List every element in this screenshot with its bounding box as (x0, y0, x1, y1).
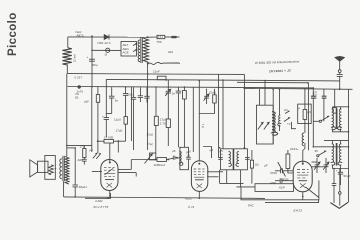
wire mains lower line (92, 49, 121, 51)
wire diagonal (278, 162, 286, 177)
fuse Si (106, 48, 110, 52)
wire IF bottom link (236, 186, 255, 188)
wire x308 corner (307, 83, 309, 151)
resistor R11 (250, 160, 253, 168)
resistor R6 (183, 87, 185, 91)
shield box (298, 104, 312, 123)
svg-text:A151+: A151+ (290, 147, 299, 151)
svg-text:ZHY3081 + JZ: ZHY3081 + JZ (268, 68, 291, 73)
band coil L1a (332, 109, 336, 130)
wire coil2 bottoms (333, 165, 349, 168)
svg-text:+: + (102, 114, 104, 118)
svg-text:µW: µW (84, 100, 89, 104)
svg-text:Ü.f3: Ü.f3 (188, 205, 194, 209)
wire dropper to bus (66, 64, 68, 73)
resistor R17 (334, 89, 336, 108)
IF transformer IF1 right loop (234, 149, 248, 170)
wire x223 (222, 80, 224, 149)
tube V2 heater (197, 184, 203, 189)
wire bottom loop big (241, 180, 319, 199)
svg-text:+: + (336, 169, 338, 173)
capacitor C22 (323, 89, 325, 96)
bus bottom (64, 197, 265, 199)
svg-text:17µ: 17µ (80, 145, 85, 149)
wire long x218 (218, 74, 220, 157)
capacitor C21 electrolytic (340, 169, 342, 173)
svg-text:µµ: µµ (284, 108, 288, 112)
tube V2 grids (194, 169, 205, 177)
tube V1 bottom lead (109, 191, 111, 199)
osc coil L4a (272, 89, 274, 112)
IF1 coil a (229, 152, 232, 167)
tube V3 bottom lead (302, 192, 304, 200)
wire AGC branch (105, 79, 107, 113)
bus L3 (68, 87, 314, 88)
svg-text:50µF: 50µF (344, 174, 351, 178)
capacitor C8 electrolytic (73, 184, 78, 186)
antenna (335, 57, 344, 62)
coil humbucking (49, 165, 54, 175)
transformer T2 primary (60, 159, 62, 179)
wire secondary bottom to bus (147, 63, 149, 150)
capacitor C5 (146, 88, 148, 97)
svg-text:5n: 5n (115, 99, 119, 103)
band core 2 (335, 143, 337, 166)
svg-text:12MΩ+2: 12MΩ+2 (154, 163, 166, 167)
resistor R12nF (157, 76, 166, 80)
transformer T2 core (62, 156, 64, 181)
svg-text:2Ω1Ω: 2Ω1Ω (314, 90, 318, 99)
wire stub x136 (135, 173, 137, 177)
tube V3 side leads (312, 161, 318, 163)
trimmer C14 (316, 158, 318, 165)
capacitor C9 (186, 157, 191, 159)
wire mid link (313, 146, 348, 148)
svg-text:0 237: 0 237 (75, 76, 83, 80)
tube V3 envelope (293, 161, 312, 192)
svg-text:2Ω: 2Ω (255, 163, 260, 167)
tube V3 grids (297, 170, 309, 178)
wire mains top line (68, 36, 148, 38)
choke RFC (302, 133, 304, 146)
capacitor C13 (275, 180, 280, 182)
IF transformer IF1 left loop (221, 149, 234, 170)
band core 1 (335, 109, 337, 130)
bus L2 (106, 79, 339, 81)
wire shield stub (292, 122, 297, 129)
capacitor C11 (245, 157, 250, 159)
resistor R5 (166, 119, 170, 128)
capacitor C17 electrolytic (105, 114, 107, 118)
wire L1 corner down (243, 74, 245, 148)
capacitor C1 electrolytic (89, 58, 95, 60)
wire anode corner x211 (203, 147, 212, 159)
wire secondary top (146, 36, 157, 38)
resistor R-dropper coil (62, 48, 71, 65)
capacitor C23 (311, 95, 316, 97)
trimmer C15 (325, 158, 327, 165)
svg-text:4 A61: 4 A61 (95, 199, 103, 203)
resistor R15 (304, 88, 306, 109)
bus L2b (237, 81, 308, 84)
svg-text:2n: 2n (172, 91, 176, 95)
svg-text:A872: A872 (77, 33, 84, 37)
wire diagonal to ground (306, 187, 319, 198)
wire coil top link (333, 106, 349, 108)
tube V1 envelope (101, 160, 118, 191)
tube V2 side leads (207, 171, 223, 173)
resistor R2 (157, 35, 165, 38)
svg-text:+µ: +µ (287, 122, 291, 126)
svg-text:12 bel: 12 bel (73, 54, 77, 63)
svg-text:µ7: µ7 (188, 150, 192, 154)
svg-text:7 µ: 7 µ (201, 123, 206, 128)
potentiometer P1 (150, 153, 156, 160)
wire IF1 bottom drops (226, 170, 228, 184)
svg-text:14: 14 (219, 153, 223, 157)
svg-text:17µ0: 17µ0 (146, 132, 153, 136)
tuned circuit loop (180, 147, 189, 169)
wire bottom stub (265, 200, 319, 203)
trimmer arrow C7 (204, 94, 209, 101)
wire selector taps (133, 43, 137, 51)
svg-text:µ0: µ0 (308, 110, 312, 114)
ground (330, 202, 348, 208)
svg-text:202: 202 (168, 50, 173, 54)
svg-text:12nF: 12nF (153, 70, 160, 74)
tube V1 grids (104, 167, 115, 176)
resistor R9 grid (98, 140, 104, 142)
svg-text:50µ: 50µ (93, 63, 98, 67)
wire grid feed x125 (125, 87, 127, 93)
svg-text:ACE: ACE (123, 51, 129, 55)
tube V1 heater (107, 183, 113, 188)
loudspeaker LS (30, 160, 38, 177)
resistor R10 (83, 145, 85, 148)
tube V3 heater (300, 183, 306, 188)
speaker frame (45, 156, 56, 180)
transformer T1 secondary (143, 38, 148, 62)
voltage selector S1 (121, 42, 137, 57)
svg-text:Bl.d 8Y78: Bl.d 8Y78 (94, 205, 109, 209)
transformer T2 secondary (65, 157, 69, 185)
svg-text:µ5: µ5 (172, 149, 176, 153)
capacitor C7 (206, 89, 208, 97)
capacitor C4 (139, 88, 141, 96)
svg-text:FAC: FAC (248, 204, 255, 208)
node connector blob (171, 36, 177, 38)
wire grid lines (67, 144, 92, 146)
capacitor C6 (167, 80, 169, 91)
transformer T1 primary (138, 40, 140, 62)
capacitor C18 (123, 93, 128, 95)
svg-text:µ: µ (299, 106, 301, 110)
svg-text:(7µ0): (7µ0) (209, 90, 216, 94)
svg-text:50: 50 (75, 96, 79, 100)
gang box (257, 105, 274, 144)
trimmer arrows (93, 153, 101, 159)
resistor R3 (96, 95, 99, 103)
resistor R12 (286, 154, 290, 169)
wire V1 bottom link (85, 193, 111, 198)
wire trafo feeds (66, 74, 68, 157)
tube V1 top lead (109, 143, 111, 163)
wire bottom segment (220, 182, 244, 184)
wire gang feeds (259, 89, 261, 105)
svg-text:Piccolo: Piccolo (7, 12, 19, 56)
wire coil bottoms (333, 129, 349, 132)
band coil L1b (338, 109, 342, 130)
switch S2 (319, 120, 321, 122)
svg-text:EH33: EH33 (294, 208, 303, 212)
svg-text:A9R: A9R (270, 181, 277, 185)
wire speaker links (54, 168, 57, 170)
band coil L2b (340, 141, 342, 144)
svg-text:µ5: µ5 (210, 148, 214, 152)
IF1 coil b (236, 152, 239, 167)
svg-text:48µ/H: 48µ/H (79, 185, 87, 189)
svg-text:Si: Si (105, 53, 108, 57)
svg-text:35: 35 (315, 149, 319, 153)
wire x92 down (91, 87, 93, 152)
wire x131 (131, 87, 133, 141)
capacitor C3 (133, 87, 135, 97)
capacitor C16 (333, 169, 335, 184)
tube V1 side leads (92, 171, 102, 173)
svg-text:NSF 42 S: NSF 42 S (98, 41, 111, 45)
svg-text:µ4: µ4 (90, 148, 94, 152)
switch contacts (284, 111, 290, 122)
wire bottom loop small (255, 184, 294, 192)
tube V2 bottom lead (198, 191, 200, 198)
band coil L2a (332, 141, 334, 144)
osc coil L4b (279, 89, 281, 115)
wire branch down from mains (91, 36, 93, 87)
node junction blob (78, 85, 81, 88)
switch S3 (317, 155, 319, 157)
wire right col x313 (312, 88, 314, 96)
wire dropper feed (67, 37, 69, 48)
capacitor C2 (111, 87, 113, 96)
diode D1 (104, 34, 109, 39)
svg-text:A1R: A1R (278, 186, 286, 190)
svg-text:12µ0: 12µ0 (114, 117, 121, 121)
svg-text:µF2R: µF2R (281, 178, 289, 182)
svg-text:A282: A282 (184, 197, 192, 201)
resistor R7 (213, 95, 217, 103)
capacitor C10 (218, 157, 223, 159)
bus L1 (68, 73, 245, 76)
svg-text:17 005: 17 005 (104, 136, 114, 140)
svg-text:17µ(: 17µ( (147, 142, 153, 146)
svg-text:∂70K: ∂70K (270, 171, 277, 175)
transformer T1 core (140, 37, 142, 63)
bus L4 (244, 88, 353, 89)
svg-text:A08: A08 (78, 158, 84, 162)
capacitor antenna (337, 74, 343, 76)
capacitor C20 (177, 87, 179, 91)
capacitor C12 (275, 170, 281, 172)
svg-text:17µ0: 17µ0 (116, 128, 123, 132)
svg-text:750: 750 (157, 40, 162, 44)
wire right edge x348 (348, 89, 350, 202)
resistor R16 (157, 158, 166, 162)
wire R2 out (165, 36, 171, 38)
capacitor C19 (172, 156, 174, 160)
svg-text:W 3081·302 mit Antennenbuchse: W 3081·302 mit Antennenbuchse (255, 59, 300, 65)
svg-text:µF: µF (264, 164, 268, 168)
resistor R8 (124, 117, 128, 125)
wire wavy link (148, 62, 180, 64)
wire x193 (192, 87, 194, 152)
gang arrows (258, 122, 269, 129)
trimmer arrow C6 (165, 89, 170, 96)
svg-text:+: + (87, 55, 89, 59)
resistor R4 (155, 87, 157, 116)
tube V2 envelope (191, 161, 207, 192)
wire plate line to trafo (74, 148, 76, 185)
coil L-det (179, 151, 183, 165)
wire tube2 anode feed (198, 81, 200, 162)
